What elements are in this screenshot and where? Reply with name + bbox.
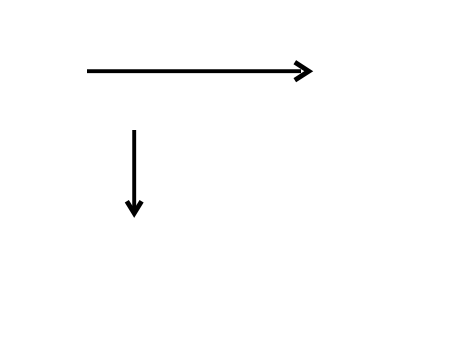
wire <box>87 69 301 73</box>
wire <box>132 130 136 210</box>
vertical arrow <box>127 130 142 213</box>
horizontal arrow <box>87 62 309 80</box>
